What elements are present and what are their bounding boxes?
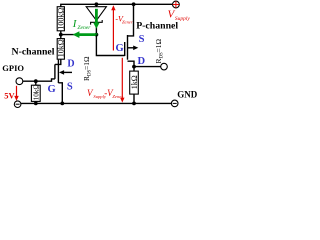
node 1k bottom <box>132 102 136 106</box>
svg-text:Zener: Zener <box>77 25 91 31</box>
wire between 100k and 10k <box>60 31 62 39</box>
svg-text:5V: 5V <box>4 90 15 100</box>
red arrow V_supply-V_zener <box>121 58 123 99</box>
N body arrow <box>63 71 72 73</box>
svg-text:=1Ω: =1Ω <box>82 56 91 70</box>
label R_DS=1 P <box>154 39 165 64</box>
resistor R4 1k <box>133 67 135 104</box>
svg-text:S: S <box>139 34 145 45</box>
resistor R2 10k <box>57 39 64 60</box>
wire GPIO to gate <box>23 79 55 81</box>
svg-text:S: S <box>67 82 73 93</box>
wire 10k to gate crossing <box>55 59 61 64</box>
wire top rail <box>61 4 173 6</box>
P body arrow <box>128 47 134 49</box>
wire bottom rail <box>21 102 172 104</box>
green current arrow horizontal I_zener <box>79 33 97 36</box>
green current arrow vertical in zener <box>95 9 98 23</box>
node pulldown bottom <box>34 102 38 106</box>
N source stub <box>58 83 62 104</box>
svg-text:Zener: Zener <box>112 94 123 99</box>
svg-text:=1Ω: =1Ω <box>154 39 163 53</box>
svg-text:GPIO: GPIO <box>2 63 24 73</box>
svg-text:D: D <box>67 59 74 70</box>
svg-text:G: G <box>116 43 124 54</box>
wire zener node to P gate <box>96 35 124 56</box>
svg-text:1kΩ: 1kΩ <box>130 75 139 89</box>
zener diode D1 <box>86 4 106 20</box>
terminal GPIO <box>16 78 23 85</box>
transistor Q2 P-channel <box>124 42 126 56</box>
terminal V_supply <box>173 1 180 8</box>
resistor R1 100k <box>57 7 64 31</box>
node zener bottom <box>95 33 99 37</box>
node N source bottom <box>60 102 64 106</box>
svg-text:10kΩ: 10kΩ <box>33 84 41 100</box>
svg-text:10kΩ: 10kΩ <box>57 39 66 57</box>
terminal minus left <box>14 101 21 108</box>
svg-text:G: G <box>48 84 56 95</box>
svg-text:100kΩ: 100kΩ <box>57 8 66 30</box>
wire drain to output terminal <box>134 66 161 68</box>
N channel bar <box>57 60 59 83</box>
node top rail / P-source junction <box>132 2 136 6</box>
svg-text:P-channel: P-channel <box>136 21 178 32</box>
red arrow 5V <box>16 86 18 98</box>
N gate bar <box>54 64 56 79</box>
P drain stub <box>128 61 135 66</box>
node pulldown <box>34 79 38 83</box>
terminal GND <box>171 100 178 107</box>
node top rail / zener junction <box>95 2 99 6</box>
wire node to zener bottom <box>61 34 97 36</box>
red arrow -V_zener <box>112 9 114 51</box>
label R_DS=1 N <box>82 56 93 81</box>
svg-text:GND: GND <box>177 89 198 99</box>
svg-text:D: D <box>138 56 146 67</box>
svg-text:N-channel: N-channel <box>12 46 55 57</box>
node divider <box>59 33 63 37</box>
terminal output <box>161 63 168 70</box>
P source stub <box>128 4 134 36</box>
svg-text:Zener: Zener <box>122 19 133 24</box>
resistor R3 10k pulldown <box>35 81 37 85</box>
node P drain <box>132 65 136 69</box>
